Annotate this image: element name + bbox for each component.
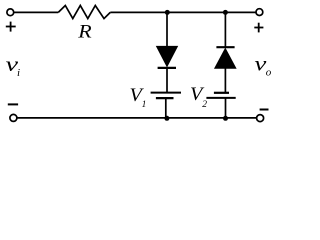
svg-text:1: 1: [142, 100, 147, 110]
terminal: input bottom-left (open circle): [10, 114, 17, 121]
battery V1 short plate (-): [156, 97, 174, 99]
wire: bottom rail: [17, 117, 256, 119]
wire: node B down to diode D2 cathode: [224, 12, 226, 47]
terminal: output bottom-right (open circle): [257, 115, 264, 122]
svg-text:o: o: [266, 67, 272, 79]
diode D2 cathode bar: [216, 46, 234, 48]
wire: D2 anode to battery V2: [224, 68, 226, 93]
wire: node A to node B: [167, 11, 225, 13]
wire: battery V1 to bottom node C: [165, 98, 167, 118]
plus sign (output +): [254, 27, 263, 29]
wire: battery V2 to bottom node D: [225, 98, 227, 118]
node B (junction dot, top of D2 branch): [223, 10, 228, 15]
terminal: output top-right (open circle): [256, 9, 263, 16]
wire: node B to top-right terminal: [225, 11, 256, 13]
svg-text:R: R: [77, 21, 92, 42]
battery V1 long plate (+): [151, 92, 181, 94]
battery V2 long plate (+): [206, 97, 235, 99]
wire: resistor to node A: [110, 11, 167, 13]
node A (junction dot, top of D1 branch): [165, 10, 170, 15]
node D (junction dot, bottom of D2 branch): [223, 116, 228, 121]
terminal: input top-left (open circle): [7, 9, 14, 16]
battery V2 short plate (-): [214, 92, 229, 94]
minus sign (input -): [8, 103, 18, 105]
diode D1 cathode bar: [158, 67, 176, 69]
wire: D1 cathode to battery V1: [166, 69, 168, 93]
wire: top-left terminal to resistor: [14, 11, 58, 13]
resistor R: [58, 6, 110, 19]
svg-text:i: i: [17, 67, 20, 79]
diode D1 (triangle pointing down): [157, 46, 178, 66]
wire: node A down to diode D1 anode: [166, 12, 168, 47]
minus sign (output -): [260, 109, 269, 111]
plus sign (input +): [6, 26, 16, 28]
diode D2 (triangle pointing up): [215, 49, 236, 69]
svg-text:2: 2: [202, 100, 207, 110]
node C (junction dot, bottom of D1 branch): [164, 116, 169, 121]
